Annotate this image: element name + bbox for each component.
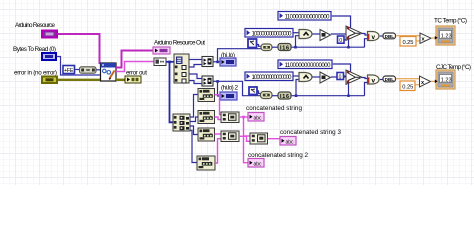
function multiply 2 bbox=[420, 76, 431, 87]
function index array 2 bbox=[173, 114, 190, 131]
svg-text:0: 0 bbox=[339, 74, 342, 80]
junction i16 chain1 bbox=[294, 46, 297, 49]
function converter triangle 2 bbox=[320, 72, 331, 83]
terminal (hi.lo) 2 indicator bbox=[220, 92, 237, 100]
wire join2 out bbox=[213, 80, 218, 82]
svg-text:concatenated string: concatenated string bbox=[246, 105, 302, 112]
wire hex3 out bbox=[215, 139, 221, 163]
wire hex0 out bbox=[215, 95, 222, 115]
wire index2 out a bbox=[190, 95, 198, 118]
subVI U1 Arduino read bbox=[101, 63, 117, 81]
svg-text:Bytes To Read (0): Bytes To Read (0) bbox=[13, 46, 56, 53]
wire join1 out bbox=[213, 61, 220, 63]
wire dbl2 to multiply2 bbox=[396, 78, 419, 80]
svg-text:error out: error out bbox=[126, 70, 147, 77]
wire index1 out a bbox=[189, 59, 202, 61]
function converter triangle 1 bbox=[320, 30, 331, 41]
function to word integer 2 bbox=[278, 92, 291, 100]
wire i16-2 chain bbox=[291, 95, 364, 97]
svg-text:concatenated string 3: concatenated string 3 bbox=[280, 129, 341, 136]
wire concat2 out bbox=[239, 136, 250, 141]
wire index2 out c bbox=[190, 126, 198, 135]
function and 1 bbox=[299, 30, 312, 39]
wire build array out bbox=[96, 69, 100, 71]
svg-text:I16: I16 bbox=[280, 46, 289, 52]
wire const1a to select bbox=[332, 16, 351, 28]
svg-text:abc: abc bbox=[254, 116, 263, 122]
wire dbl1 to multiply1 bbox=[396, 35, 420, 37]
wire const1b to and bbox=[294, 32, 300, 34]
wire index1 out c bbox=[189, 74, 202, 79]
function logical shift 2 bbox=[261, 92, 273, 99]
terminal Bytes To Read (U8 control) bbox=[42, 53, 56, 60]
wire const2a to select2 bbox=[333, 64, 351, 72]
wire shiftconst2 out bbox=[257, 91, 261, 94]
svg-text:abc: abc bbox=[286, 140, 295, 146]
terminal concatenated string 3 bbox=[280, 137, 296, 146]
svg-text:1.23: 1.23 bbox=[441, 33, 452, 39]
wire concat1 out bbox=[239, 116, 248, 118]
wire byte array bbox=[166, 61, 174, 63]
wire VISA in bbox=[58, 34, 100, 64]
constant numeric shift 2 bbox=[249, 87, 257, 95]
svg-text:DBL: DBL bbox=[385, 77, 395, 82]
terminal concatenated string 2 bbox=[248, 159, 264, 168]
terminal CJC Temp indicator bbox=[435, 70, 455, 89]
junction join2 bbox=[216, 80, 219, 83]
wire 025b to multiply2 bbox=[415, 84, 419, 86]
junction i16 chain2 bbox=[295, 94, 298, 97]
wire or1 to dbl1 bbox=[380, 35, 383, 37]
svg-text:TC Temp (°C): TC Temp (°C) bbox=[434, 17, 467, 25]
function build array bbox=[80, 67, 97, 73]
wire hex1 out bbox=[215, 117, 222, 120]
wire FE out bbox=[75, 69, 80, 71]
function number to hex string 1 bbox=[198, 111, 215, 124]
svg-text:v: v bbox=[372, 34, 376, 41]
wire select1 to or1 bbox=[362, 34, 368, 36]
function select 2 bbox=[346, 70, 362, 84]
terminal (hi.lo) indicator bbox=[220, 58, 236, 66]
function number to hex string 2 bbox=[198, 128, 215, 141]
wire error in bbox=[58, 79, 101, 81]
wire shift2 to i16-2 bbox=[272, 95, 278, 97]
function logical shift 1 bbox=[261, 44, 272, 51]
function index array 1 bbox=[174, 54, 189, 83]
function or 1 bbox=[368, 32, 380, 42]
svg-text:DBL: DBL bbox=[385, 34, 395, 39]
svg-text:0.25: 0.25 bbox=[403, 40, 414, 46]
constant 0 (bottom) bbox=[337, 73, 344, 81]
svg-text:+FE: +FE bbox=[64, 68, 74, 74]
function concatenate strings 3 bbox=[250, 133, 268, 144]
wire and1 to triangle1 bbox=[313, 33, 321, 35]
wire select2 to or2 bbox=[362, 78, 368, 79]
terminal Arduino Resource Out (VISA indicator) bbox=[153, 47, 170, 54]
wire error out bbox=[116, 79, 125, 81]
svg-text:0: 0 bbox=[339, 38, 342, 44]
terminal error in (cluster control) bbox=[42, 77, 57, 84]
svg-text:I16: I16 bbox=[280, 94, 289, 100]
wire hex2 out bbox=[215, 133, 222, 135]
wire const0 to select1 bbox=[344, 39, 346, 41]
constant 0.25 (bottom) bbox=[400, 81, 415, 91]
wire and2 to triangle2 bbox=[313, 76, 321, 78]
svg-text:Arduino Resource: Arduino Resource bbox=[15, 22, 55, 29]
wire index1 out d bbox=[189, 81, 202, 84]
function concatenate strings 1 bbox=[221, 112, 239, 123]
wire const0b to select2 bbox=[344, 75, 346, 77]
wire shiftconst1 out bbox=[257, 45, 261, 47]
function join numbers 2 bbox=[202, 76, 213, 86]
wire multiply2 to CJC bbox=[431, 80, 436, 82]
function string to byte array bbox=[154, 58, 166, 66]
svg-text:1100000000000000: 1100000000000000 bbox=[285, 63, 332, 69]
wire index2 out b bbox=[190, 117, 198, 122]
function number to hex string 0 bbox=[198, 89, 215, 102]
junction byte array bbox=[168, 61, 171, 64]
function to double 2 bbox=[383, 76, 396, 82]
wire Bytes To Read bbox=[57, 57, 101, 76]
function to word integer 1 bbox=[278, 44, 291, 52]
wire string data out bbox=[116, 62, 154, 72]
svg-text:error in (no error): error in (no error) bbox=[14, 70, 57, 77]
constant numeric shift 1 bbox=[248, 39, 257, 48]
svg-text:v: v bbox=[372, 78, 376, 85]
terminal error out (indicator) bbox=[125, 76, 141, 83]
constant binary 1b bbox=[245, 29, 293, 38]
function and 2 bbox=[299, 73, 312, 82]
wire multiply1 to TC bbox=[431, 37, 436, 39]
function to double 1 bbox=[383, 33, 396, 39]
junction concat1 bbox=[242, 116, 245, 119]
svg-text:abc: abc bbox=[254, 162, 263, 168]
svg-text:0.25: 0.25 bbox=[402, 84, 413, 90]
function or 2 bbox=[368, 75, 380, 85]
wire concat3 out bbox=[268, 138, 280, 140]
constant binary 2b bbox=[245, 72, 293, 81]
constant binary 1a bbox=[278, 12, 331, 21]
constant 0 (top) bbox=[338, 36, 345, 44]
svg-text:1100000000000000: 1100000000000000 bbox=[285, 15, 331, 21]
wire shift1 to i16 bbox=[272, 46, 278, 48]
junction join1 bbox=[216, 61, 219, 64]
wire tri2 to select2 bbox=[331, 76, 346, 78]
svg-text:1000000000000000: 1000000000000000 bbox=[252, 75, 293, 81]
svg-text:Arduino Resource Out: Arduino Resource Out bbox=[154, 40, 205, 47]
constant binary 2a bbox=[278, 60, 332, 69]
function join numbers 1 bbox=[202, 57, 213, 67]
wire or2 to dbl2 bbox=[380, 79, 383, 81]
wire index2 out d bbox=[190, 130, 197, 162]
function number to hex string 3 bbox=[197, 156, 215, 170]
constant 0.25 (top) bbox=[400, 37, 416, 47]
wire i16 to and / select / or bbox=[291, 46, 364, 48]
wire const2b to and2 bbox=[294, 75, 300, 77]
svg-text:1.23: 1.23 bbox=[441, 77, 452, 83]
function concatenate strings 2 bbox=[221, 131, 239, 142]
function select 1 bbox=[346, 26, 362, 40]
function multiply 1 bbox=[420, 33, 431, 44]
terminal Arduino Resource (VISA control) bbox=[42, 31, 57, 38]
wire 025a to multiply1 bbox=[416, 40, 420, 42]
wire tri1 to select1 bbox=[331, 33, 346, 35]
svg-text:(hi.lo) 2: (hi.lo) 2 bbox=[221, 85, 238, 92]
wire index1 out b bbox=[189, 65, 202, 68]
wire VISA out bbox=[116, 51, 153, 68]
constant FE bbox=[63, 66, 75, 74]
svg-text:1000000000000000: 1000000000000000 bbox=[252, 32, 293, 38]
terminal concatenated string bbox=[248, 113, 264, 122]
terminal TC Temp indicator bbox=[435, 26, 455, 45]
